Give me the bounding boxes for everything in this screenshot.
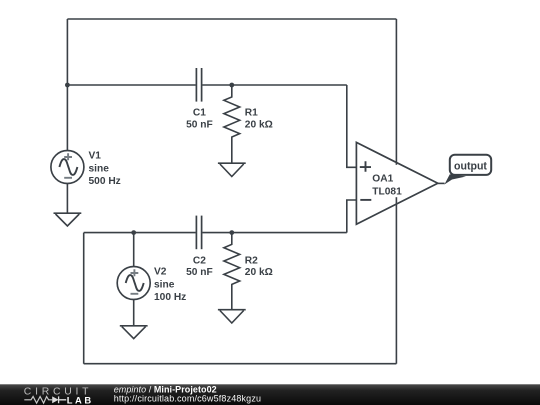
svg-text:V2: V2 bbox=[154, 267, 167, 278]
svg-text:LAB: LAB bbox=[67, 394, 92, 405]
wire top feedback horizontal bbox=[67, 18, 396, 20]
wire V2 to ground bbox=[133, 300, 135, 326]
node output flag box bbox=[450, 155, 491, 175]
op-amp label background panel bbox=[371, 165, 402, 197]
svg-text:sine: sine bbox=[154, 279, 175, 290]
wire V2 top bbox=[133, 233, 135, 267]
node junction V2 top bbox=[131, 230, 136, 235]
svg-text:500 Hz: 500 Hz bbox=[89, 176, 121, 187]
wire node-A horizontal left of C1 bbox=[67, 84, 195, 86]
node junction C2-R2 bbox=[229, 230, 234, 235]
resistor R1 bbox=[224, 85, 240, 163]
voltage source V2 bbox=[117, 267, 150, 300]
svg-text:TL081: TL081 bbox=[372, 187, 402, 198]
wire bottom-loop top horizontal left of C2 bbox=[84, 232, 196, 234]
node junction V1 top bbox=[65, 83, 70, 88]
wire feedback right vertical bbox=[395, 19, 397, 364]
wire op-amp output bbox=[438, 182, 445, 184]
resistor R2 bbox=[224, 233, 240, 310]
wire op-amp inverting input bbox=[347, 200, 357, 233]
logo diode bbox=[52, 396, 66, 403]
node junction C1-R1 bbox=[229, 83, 234, 88]
ground V2 bbox=[120, 326, 148, 339]
svg-text:sine: sine bbox=[89, 163, 110, 174]
capacitor C2 bbox=[196, 216, 201, 250]
svg-text:OA1: OA1 bbox=[372, 173, 393, 184]
footer bar bbox=[0, 384, 540, 405]
svg-text:http://circuitlab.com/c6w5f8z4: http://circuitlab.com/c6w5f8z48kgzu bbox=[114, 394, 261, 404]
voltage source V1 bbox=[51, 151, 84, 184]
svg-text:50 nF: 50 nF bbox=[186, 267, 213, 278]
svg-text:output: output bbox=[454, 161, 487, 173]
svg-text:100 Hz: 100 Hz bbox=[154, 292, 186, 303]
op-amp OA1 bbox=[356, 142, 437, 224]
ground V1 bbox=[54, 213, 82, 226]
wire V1 top vertical bbox=[66, 19, 68, 151]
logo resistor squiggle bbox=[24, 397, 52, 404]
wire bottom-loop left vertical bbox=[83, 233, 85, 364]
wire node-B horizontal right of C1 bbox=[202, 84, 346, 86]
wire bottom-loop top horizontal right of C2 bbox=[202, 232, 346, 234]
svg-text:R2: R2 bbox=[245, 255, 258, 266]
svg-text:50 nF: 50 nF bbox=[186, 119, 213, 130]
ground R2 bbox=[218, 310, 246, 323]
svg-text:C2: C2 bbox=[193, 255, 206, 266]
svg-text:V1: V1 bbox=[89, 151, 102, 162]
wire bottom horizontal bbox=[84, 363, 397, 365]
svg-text:R1: R1 bbox=[245, 108, 258, 119]
capacitor C1 bbox=[196, 68, 201, 102]
node output flag tail bbox=[444, 174, 466, 184]
wire op-amp non-inverting input bbox=[347, 85, 357, 167]
wire V1 to ground bbox=[66, 184, 68, 214]
svg-text:20 kΩ: 20 kΩ bbox=[245, 119, 273, 130]
svg-text:20 kΩ: 20 kΩ bbox=[245, 267, 273, 278]
ground R1 bbox=[218, 163, 246, 176]
svg-text:C1: C1 bbox=[193, 108, 206, 119]
